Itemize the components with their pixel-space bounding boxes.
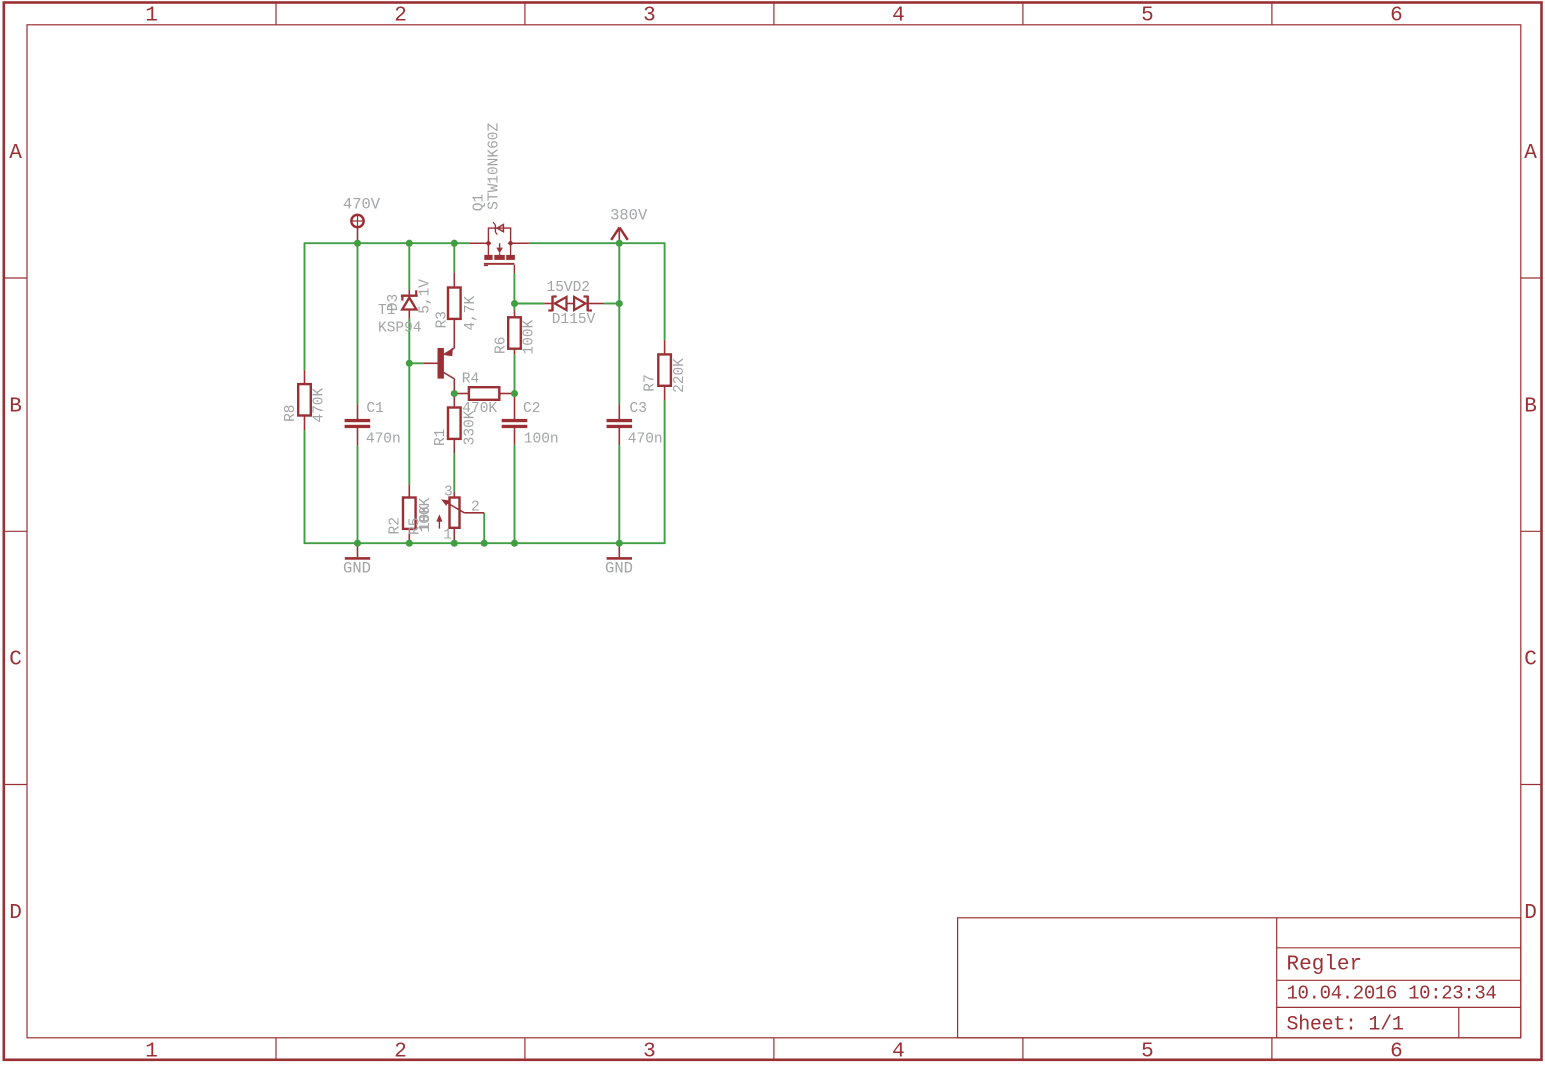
svg-text:C3: C3 [630,401,647,417]
junction top rail / 380V [616,240,623,247]
junction bottom rail / wiper drop [481,540,488,547]
wire right rail upper [664,242,666,340]
wire bottom rail (green) [304,542,666,544]
pin pot terminal 3 [453,492,455,498]
svg-text:KSP94: KSP94 [378,321,422,337]
svg-text:R6: R6 [493,337,509,354]
wire top rail right (green) [529,242,665,244]
pin R7 top [664,340,666,354]
junction bottom rail / GND1 [354,540,361,547]
svg-text:5: 5 [1141,5,1154,28]
wire R6 to R4 node [514,355,516,392]
svg-text:330K: 330K [462,410,478,445]
svg-text:470K: 470K [312,388,328,423]
wire gate column upper [513,273,515,310]
wire R1-pot column [453,453,455,492]
pin R2 bottom [408,528,410,543]
svg-text:C: C [9,649,22,672]
pin R6 top [514,310,516,317]
pin R7 bottom [664,385,666,400]
pin C1 bottom [357,428,359,445]
svg-text:2: 2 [394,1041,407,1064]
CIRCUIT [283,122,688,577]
wire D3-R2 column middle [408,318,410,484]
potentiometer R5 [436,498,464,529]
svg-text:R7: R7 [643,374,659,391]
pin T1 base (red part) [424,362,438,364]
svg-text:B: B [1524,396,1537,419]
zener diode D2 [574,296,592,312]
svg-text:T1: T1 [378,303,395,319]
wire diode row left (green) [515,303,545,305]
junction diode row / 380V column [616,300,623,307]
svg-text:Q1: Q1 [471,194,487,211]
svg-text:B: B [9,396,22,419]
resistor R2 [403,498,416,529]
junction R4 right node [511,390,518,397]
mosfet Q1 (STW10NK60Z) [470,222,529,273]
wire left rail lower [304,430,306,544]
svg-text:R1: R1 [433,429,449,446]
pin GND1 stem [357,543,359,557]
pin R1 bottom [453,438,455,453]
zener diode D1 [548,296,566,312]
pin C1 top [357,404,359,419]
svg-text:2: 2 [394,5,407,28]
wire C2 column lower [514,445,516,543]
pin R2 top [408,485,410,498]
svg-text:R3: R3 [434,311,450,328]
pin C2 top [514,391,516,419]
wire between D1 and D2 [567,303,575,305]
svg-text:1: 1 [145,5,158,28]
svg-text:3: 3 [643,1041,656,1064]
svg-text:1: 1 [145,1041,158,1064]
svg-text:GND: GND [343,560,371,578]
transistor T1 (PNP KSP94) [438,347,455,379]
wire 380V column upper [618,243,620,404]
pin R3 top [453,273,455,288]
wire base row (green part) [409,362,424,364]
svg-text:5: 5 [1141,1041,1154,1064]
pin R4 left [454,393,469,395]
svg-text:1: 1 [443,528,452,544]
pin R6 bottom [514,348,516,355]
svg-text:Sheet: 1/1: Sheet: 1/1 [1287,1014,1404,1037]
svg-text:2: 2 [471,499,480,515]
svg-text:15VD2: 15VD2 [547,280,591,296]
pin R8 top [304,370,306,384]
junction R4 left node [451,390,458,397]
pin D3 bottom [408,310,410,319]
junction top rail / R3 column [451,240,458,247]
capacitor C1 [345,419,371,428]
svg-text:D115V: D115V [552,312,596,328]
junction bottom rail / R2 [406,540,413,547]
pin C3 top [618,404,620,419]
wire top rail left (green) [305,242,470,244]
svg-text:A: A [9,142,22,165]
resistor R8 [298,384,311,415]
svg-text:C: C [1524,649,1537,672]
svg-text:470n: 470n [628,432,663,448]
svg-text:4: 4 [892,1041,905,1064]
ground GND2 [607,557,632,560]
svg-text:5,1V: 5,1V [417,279,433,314]
svg-text:R2: R2 [388,517,404,534]
supply symbol 470V [351,215,363,227]
svg-text:10.04.2016 10:23:34: 10.04.2016 10:23:34 [1287,983,1497,1005]
svg-text:Regler: Regler [1287,954,1363,977]
wire R3 column upper [453,243,455,272]
resistor R4 [469,387,499,400]
junction bottom rail / pot pin1 [451,540,458,547]
wire left rail upper [304,242,306,370]
pin R4 right [499,393,514,395]
pin pot terminal 1 [453,528,455,543]
pin C2 bottom [514,428,516,445]
wire 380V column lower [618,445,620,543]
svg-text:STW10NK60Z: STW10NK60Z [486,122,502,209]
svg-text:470V: 470V [343,195,381,213]
junction top rail / 470V [354,240,361,247]
junction diode row / gate column [511,300,518,307]
resistor R7 [658,354,671,385]
capacitor C2 [502,419,528,428]
ground GND1 [345,557,370,560]
wire diode row right (green) [604,303,619,305]
svg-text:100n: 100n [524,432,559,448]
svg-text:220K: 220K [672,358,688,393]
svg-text:3: 3 [643,5,656,28]
pin D1 left [544,303,551,305]
svg-text:D: D [1524,902,1537,925]
wire right rail lower [664,400,666,544]
svg-text:D: D [9,902,22,925]
svg-text:3: 3 [444,485,453,501]
pin D3 top [408,290,410,295]
junction bottom rail / GND2 [616,540,623,547]
junction top rail / D3 column [406,240,413,247]
svg-text:C1: C1 [366,401,383,417]
svg-text:6: 6 [1390,5,1403,28]
pin T1 collector to R4 node / R1 top [453,379,455,408]
svg-text:R4: R4 [462,372,479,388]
pin GND2 stem [618,543,620,557]
labels [283,122,688,577]
pin R8 bottom [304,415,306,430]
resistor R3 [448,288,461,319]
svg-text:C2: C2 [523,401,540,417]
pin 380V stem [618,228,620,243]
wire D3 column upper [408,243,410,289]
svg-text:100K: 100K [521,319,537,354]
wire 470V column upper [357,243,359,404]
svg-text:4: 4 [892,5,905,28]
junction T1 base tap [406,360,413,367]
svg-text:470n: 470n [366,432,401,448]
wire pot wiper horizontal [464,512,484,514]
pin 470V supply stem [357,227,359,243]
svg-text:380V: 380V [610,207,648,225]
zener diode D3 [401,290,418,309]
junction bottom rail / C2 [511,540,518,547]
wire 470V column lower [357,445,359,543]
capacitor C3 [607,419,633,428]
pin R3 bottom / T1 emitter lead [453,318,455,348]
svg-text:R8: R8 [283,404,299,421]
resistor R6 [508,317,521,348]
svg-text:4,7K: 4,7K [463,296,479,331]
supply symbol 380V [611,227,628,240]
pin D2 right [589,303,604,305]
resistor R1 [448,408,461,439]
svg-text:10K: 10K [418,505,434,531]
svg-text:A: A [1524,142,1537,165]
pin C3 bottom [618,428,620,445]
svg-text:GND: GND [605,560,633,578]
wire wiper drop [483,513,485,543]
TITLE BLOCK [958,918,1521,1038]
svg-text:6: 6 [1390,1041,1403,1064]
